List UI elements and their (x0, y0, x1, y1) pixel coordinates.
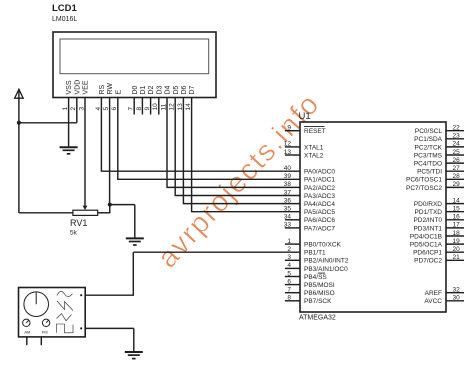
U1 pin 15 stub (446, 211, 464, 213)
svg-text:26: 26 (453, 157, 461, 164)
svg-text:D3: D3 (156, 85, 163, 94)
svg-text:27: 27 (453, 165, 461, 172)
U1 pin 1 stub (285, 243, 300, 245)
svg-text:PD4/OC1B: PD4/OC1B (410, 233, 442, 240)
svg-text:8: 8 (287, 295, 291, 302)
svg-text:U1: U1 (299, 111, 311, 122)
U1 pin 20 stub (446, 251, 464, 253)
generator terminal pin bottom (80, 327, 82, 329)
U1 pin 32 stub (446, 292, 464, 294)
wire D6 to PA4 (183, 203, 300, 205)
svg-text:PB4/SS: PB4/SS (304, 274, 327, 281)
generator bottom stub AM (26, 337, 28, 345)
svg-text:PD2/INT0: PD2/INT0 (413, 217, 442, 224)
svg-text:PC0/SCL: PC0/SCL (415, 128, 442, 135)
svg-text:PB3/AIN1/OC0: PB3/AIN1/OC0 (304, 266, 348, 273)
U1 pin 21 stub (446, 259, 464, 261)
wire D7 to PA5 (191, 211, 300, 213)
LCD screen area (60, 39, 209, 74)
U1 pin 7 stub (285, 292, 300, 294)
U1 pin 13 stub (285, 154, 300, 156)
LCD pin 8 stub D1 (141, 98, 143, 115)
svg-text:RS: RS (99, 84, 106, 94)
svg-text:AVCC: AVCC (424, 298, 442, 305)
svg-text:PB1/T1: PB1/T1 (304, 250, 326, 257)
U1 pin 4 stub (285, 267, 300, 269)
svg-text:37: 37 (284, 189, 292, 196)
wire generator to PB1 (133, 251, 300, 253)
svg-text:D2: D2 (148, 85, 155, 94)
svg-text:6: 6 (287, 278, 291, 285)
microcontroller U1 ATMEGA32 body (300, 122, 446, 312)
wire generator ground down (133, 328, 135, 352)
svg-text:RW: RW (107, 83, 114, 95)
svg-text:PC2/TCK: PC2/TCK (415, 144, 443, 151)
U1 pin 18 stub (446, 235, 464, 237)
svg-text:PC4/TDO: PC4/TDO (414, 161, 442, 168)
svg-text:VSS: VSS (66, 80, 73, 94)
svg-text:28: 28 (453, 173, 461, 180)
LCD pin 10 stub D3 (158, 98, 160, 115)
svg-text:21: 21 (453, 254, 461, 261)
wire generator output right (85, 294, 133, 296)
wire junction to ground corner (110, 204, 135, 206)
U1 pin 33 stub (285, 227, 300, 229)
svg-text:PD5/OC1A: PD5/OC1A (410, 242, 443, 249)
svg-text:RV1: RV1 (70, 218, 87, 228)
ground under LCD VSS (60, 147, 78, 154)
svg-text:D4: D4 (165, 85, 172, 94)
svg-text:15: 15 (453, 206, 461, 213)
svg-text:38: 38 (284, 181, 292, 188)
LCD pin 5 RW wire down to ground junction (109, 98, 111, 205)
svg-text:PC5/TDI: PC5/TDI (417, 169, 442, 176)
LCD pin 12 D5 wire down (174, 98, 176, 196)
svg-text:PD3/INT1: PD3/INT1 (413, 225, 442, 232)
wire RV1 right up to RW junction (109, 205, 111, 214)
svg-text:PD6/ICP1: PD6/ICP1 (413, 250, 442, 257)
svg-text:PA4/ADC4: PA4/ADC4 (304, 201, 335, 208)
LCD pin 2 VDD wire (76, 98, 78, 123)
U1 pin 23 stub (446, 138, 464, 140)
wire RS to PA0 (101, 170, 300, 172)
svg-text:PB0/T0/XCK: PB0/T0/XCK (304, 242, 342, 249)
generator bottom stub FM (40, 337, 42, 345)
svg-text:D5: D5 (173, 85, 180, 94)
svg-text:PC3/TMS: PC3/TMS (414, 152, 443, 159)
junction power to VDD (17, 121, 21, 125)
wire power to LCD VDD (19, 122, 77, 124)
U1 pin 9 stub (285, 130, 300, 132)
signal generator FM knob (42, 319, 49, 326)
svg-text:PD7/OC2: PD7/OC2 (414, 258, 442, 265)
U1 pin 3 stub (285, 259, 300, 261)
wire D5 to PA3 (175, 195, 300, 197)
svg-text:18: 18 (453, 230, 461, 237)
waveform icon triangle (57, 314, 72, 321)
svg-text:PA1/ADC1: PA1/ADC1 (304, 177, 335, 184)
svg-text:XTAL1: XTAL1 (304, 144, 324, 151)
svg-text:D0: D0 (132, 85, 139, 94)
U1 pin 22 stub (446, 130, 464, 132)
U1 pin 16 stub (446, 219, 464, 221)
svg-text:PB6/MISO: PB6/MISO (304, 290, 335, 297)
U1 pin 14 stub (446, 203, 464, 205)
svg-text:29: 29 (453, 181, 461, 188)
generator terminal pin top (80, 294, 82, 296)
power symbol VCC arrow (15, 89, 24, 98)
LCD pin 9 stub D2 (150, 98, 152, 115)
U1 pin 8 stub (285, 300, 300, 302)
svg-text:PD1/TXD: PD1/TXD (415, 209, 443, 216)
waveform icon sawtooth (57, 301, 73, 311)
U1 pin 29 stub (446, 186, 464, 188)
svg-text:PA5/ADC5: PA5/ADC5 (304, 209, 335, 216)
U1 pin 5 stub (285, 276, 300, 278)
svg-text:E: E (115, 90, 122, 95)
svg-text:PB7/SCK: PB7/SCK (304, 298, 332, 305)
U1 pin 12 stub (285, 146, 300, 148)
svg-text:D6: D6 (181, 85, 188, 94)
signal generator body (19, 288, 86, 337)
LCD pin 13 D6 wire down (182, 98, 184, 204)
U1 pin 27 stub (446, 170, 464, 172)
potentiometer RV1 body (73, 210, 98, 215)
svg-text:AREF: AREF (425, 290, 442, 297)
svg-text:17: 17 (453, 222, 461, 229)
signal generator main knob (24, 292, 49, 317)
wire generator output up (132, 252, 134, 296)
waveform icon sine (57, 291, 73, 296)
svg-text:D7: D7 (189, 85, 196, 94)
svg-text:LCD1: LCD1 (52, 3, 78, 14)
LCD pin 1 VSS wire to ground (68, 98, 70, 148)
ground under generator (125, 352, 143, 359)
svg-text:3: 3 (287, 254, 291, 261)
svg-text:PB5/MOSI: PB5/MOSI (304, 282, 335, 289)
ground for RW and RV1 (126, 238, 144, 245)
svg-text:34: 34 (284, 214, 292, 221)
U1 pin 30 stub (446, 300, 464, 302)
svg-text:RESET: RESET (304, 128, 326, 135)
svg-text:5: 5 (287, 270, 291, 277)
svg-text:FM: FM (42, 329, 48, 334)
svg-text:30: 30 (453, 295, 461, 302)
U1 pin 26 stub (446, 162, 464, 164)
svg-text:24: 24 (453, 141, 461, 148)
svg-text:1: 1 (287, 238, 291, 245)
junction RW RV1 ground (108, 203, 112, 207)
LCD pin 4 RS wire down (100, 98, 102, 172)
svg-text:40: 40 (284, 165, 292, 172)
svg-text:XTAL2: XTAL2 (304, 152, 324, 159)
svg-text:AM: AM (24, 329, 30, 334)
LCD pin 14 D7 wire down (191, 98, 193, 212)
svg-text:5k: 5k (70, 230, 78, 237)
svg-text:22: 22 (453, 125, 461, 132)
LCD pin 11 D4 wire down (166, 98, 168, 188)
wire E to PA1 (117, 178, 300, 180)
LCD pin 6 E wire down (117, 98, 119, 180)
svg-text:VEE: VEE (83, 80, 90, 94)
LCD pin 3 VEE wire to RV1 wiper (84, 98, 86, 207)
svg-text:PA0/ADC0: PA0/ADC0 (304, 169, 335, 176)
U1 pin 6 stub (285, 284, 300, 286)
U1 pin 25 stub (446, 154, 464, 156)
LCD pin 7 stub D0 (133, 98, 135, 115)
svg-text:25: 25 (453, 149, 461, 156)
wire power rail vertical (18, 89, 20, 213)
svg-text:PA6/ADC6: PA6/ADC6 (304, 217, 335, 224)
wire RV1 right terminal (98, 212, 110, 214)
svg-text:VDD: VDD (74, 80, 81, 95)
svg-text:PA7/ADC7: PA7/ADC7 (304, 225, 335, 232)
U1 pin 17 stub (446, 227, 464, 229)
svg-text:D1: D1 (140, 85, 147, 94)
U1 pin 19 stub (446, 243, 464, 245)
svg-text:LM016L: LM016L (52, 16, 77, 23)
LCD LM016L body (53, 32, 216, 98)
svg-text:PD0/RXD: PD0/RXD (414, 201, 442, 208)
svg-text:7: 7 (287, 287, 291, 294)
svg-text:PA2/ADC2: PA2/ADC2 (304, 185, 335, 192)
waveform icon square (57, 324, 74, 333)
svg-text:39: 39 (284, 173, 292, 180)
svg-text:13: 13 (284, 149, 292, 156)
svg-text:32: 32 (453, 287, 461, 294)
svg-text:4: 4 (287, 262, 291, 269)
svg-text:PB2/AIN0/INT2: PB2/AIN0/INT2 (304, 258, 349, 265)
U1 pin 24 stub (446, 146, 464, 148)
wire RV1 left terminal to power rail (19, 212, 73, 214)
wire D4 to PA2 (166, 186, 300, 188)
svg-text:19: 19 (453, 238, 461, 245)
svg-text:23: 23 (453, 133, 461, 140)
svg-text:9: 9 (287, 125, 291, 132)
U1 pin 34 stub (285, 219, 300, 221)
svg-text:PC7/TOSC2: PC7/TOSC2 (406, 185, 442, 192)
svg-text:PA3/ADC3: PA3/ADC3 (304, 193, 335, 200)
svg-text:20: 20 (453, 246, 461, 253)
signal generator AM knob (23, 319, 30, 326)
svg-text:35: 35 (284, 206, 292, 213)
svg-text:14: 14 (453, 197, 461, 204)
RV1 wiper arrow (83, 206, 88, 210)
wire generator ground right (85, 327, 134, 329)
svg-text:16: 16 (453, 214, 461, 221)
svg-text:ATMEGA32: ATMEGA32 (299, 315, 336, 322)
svg-text:12: 12 (284, 141, 292, 148)
U1 pin 28 stub (446, 178, 464, 180)
svg-text:33: 33 (284, 222, 292, 229)
wire down to ground (134, 205, 136, 239)
svg-text:PC1/SDA: PC1/SDA (414, 136, 442, 143)
svg-text:PC6/TOSC1: PC6/TOSC1 (406, 177, 442, 184)
svg-text:36: 36 (284, 197, 292, 204)
